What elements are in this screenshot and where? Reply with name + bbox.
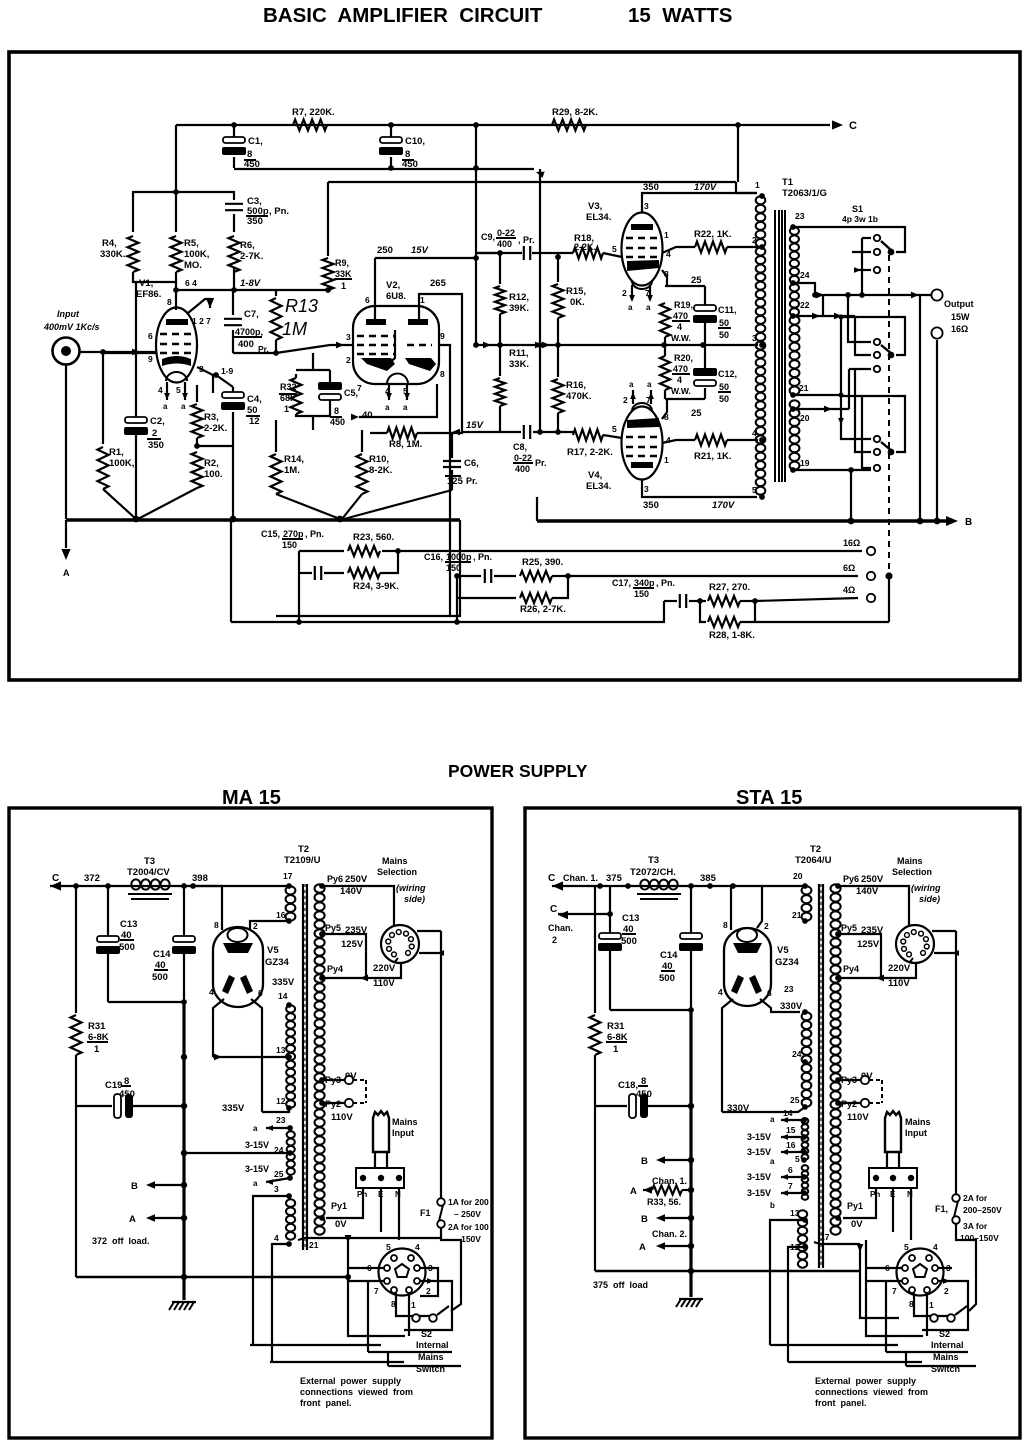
wire 335V pin12 rail bbox=[262, 1108, 289, 1112]
wire 335V rail bbox=[213, 1056, 289, 1058]
svg-text:, Pn.: , Pn. bbox=[473, 552, 492, 562]
svg-text:C11,: C11, bbox=[718, 305, 737, 315]
wire HT rail top bbox=[176, 124, 830, 126]
transformer T2 right coil bbox=[315, 884, 325, 892]
wire tap22 row bbox=[793, 315, 855, 317]
svg-text:front panel.: front panel. bbox=[815, 1398, 867, 1408]
svg-text:25: 25 bbox=[790, 1095, 800, 1105]
STA15 node C chan2 arrow bbox=[558, 911, 568, 919]
svg-text:3-15V: 3-15V bbox=[245, 1164, 269, 1174]
svg-text:7: 7 bbox=[892, 1286, 897, 1296]
svg-text:0V: 0V bbox=[335, 1219, 347, 1230]
T2 21 lead bbox=[298, 1238, 441, 1240]
svg-text:350: 350 bbox=[247, 216, 263, 227]
svg-text:GZ34: GZ34 bbox=[775, 957, 799, 968]
wire tap20 row bbox=[793, 408, 849, 410]
svg-text:EL34.: EL34. bbox=[586, 212, 611, 223]
svg-text:4: 4 bbox=[718, 987, 723, 997]
svg-text:S2: S2 bbox=[421, 1329, 432, 1339]
svg-text:250V: 250V bbox=[345, 874, 368, 885]
wire screen rail bbox=[234, 168, 534, 170]
svg-text:Input: Input bbox=[905, 1128, 927, 1138]
svg-text:8-2K.: 8-2K. bbox=[369, 465, 392, 476]
resistor R6 bbox=[229, 236, 240, 272]
V5 pin6 lead bbox=[251, 999, 262, 1112]
tube V2 anode L bbox=[361, 358, 395, 371]
rotary selector STA bbox=[896, 925, 934, 963]
svg-text:C13: C13 bbox=[120, 919, 137, 930]
svg-text:T1: T1 bbox=[782, 177, 794, 188]
svg-text:C: C bbox=[849, 120, 857, 132]
svg-text:Internal: Internal bbox=[931, 1340, 964, 1350]
svg-text:A: A bbox=[63, 568, 70, 578]
svg-text:500: 500 bbox=[119, 942, 135, 953]
resistor R7 bbox=[293, 120, 327, 131]
STA15 node C chan1 arrow bbox=[552, 881, 563, 890]
wire fb bottom rail bbox=[231, 601, 664, 622]
resistor R26 bbox=[457, 597, 516, 599]
tube V2 anode R bbox=[405, 358, 436, 371]
svg-text:R15,: R15, bbox=[566, 286, 586, 297]
svg-text:23: 23 bbox=[795, 211, 805, 221]
svg-text:3-15V: 3-15V bbox=[747, 1188, 771, 1198]
svg-text:22: 22 bbox=[800, 300, 810, 310]
wire mesh v848 bbox=[848, 295, 871, 342]
svg-text:0-22: 0-22 bbox=[514, 453, 532, 463]
svg-text:Py5: Py5 bbox=[841, 923, 857, 933]
svg-text:A: A bbox=[129, 1214, 136, 1225]
wire R4 branch bbox=[133, 192, 176, 232]
svg-text:2A for 100: 2A for 100 bbox=[448, 1222, 489, 1232]
svg-text:4: 4 bbox=[274, 1233, 279, 1243]
svg-text:19: 19 bbox=[800, 458, 810, 468]
wire V1 plate branch bbox=[175, 125, 177, 232]
transformer T1 core bbox=[774, 210, 776, 482]
STA15 top rail bbox=[552, 885, 805, 887]
svg-text:B: B bbox=[131, 1181, 138, 1192]
resistor R18 bbox=[573, 248, 603, 259]
svg-text:a: a bbox=[253, 1124, 258, 1133]
octal socket pins MA bbox=[391, 1255, 397, 1261]
svg-text:7: 7 bbox=[645, 288, 650, 298]
svg-text:R4,: R4, bbox=[102, 238, 117, 249]
resistor R12 bbox=[499, 253, 501, 284]
svg-text:3-15V: 3-15V bbox=[747, 1172, 771, 1182]
svg-text:5: 5 bbox=[612, 424, 617, 434]
svg-text:7: 7 bbox=[374, 1286, 379, 1296]
capacitor C13 psu bbox=[107, 886, 109, 936]
wire mesh MA 1 bbox=[250, 1344, 381, 1346]
svg-text:33K: 33K bbox=[335, 269, 352, 279]
svg-text:1-9: 1-9 bbox=[221, 366, 234, 376]
transformer T1 secondary winding mid bbox=[790, 316, 800, 324]
svg-text:4p 3w 1b: 4p 3w 1b bbox=[842, 214, 878, 224]
wire right vert from rail bbox=[475, 125, 477, 168]
node B2 arrow STA bbox=[660, 1217, 691, 1219]
svg-text:STA 15: STA 15 bbox=[736, 787, 802, 809]
ground MA bbox=[183, 1277, 185, 1300]
svg-text:3-15V: 3-15V bbox=[747, 1147, 771, 1157]
wire v4 pin8 cell bbox=[662, 399, 667, 419]
svg-text:6: 6 bbox=[258, 988, 263, 998]
svg-text:2A for: 2A for bbox=[963, 1193, 988, 1203]
svg-text:EF86.: EF86. bbox=[136, 289, 161, 300]
node A2 arrow STA bbox=[660, 1245, 691, 1247]
svg-text:2: 2 bbox=[346, 355, 351, 365]
tube V4 top arc bbox=[632, 403, 652, 411]
svg-text:400: 400 bbox=[515, 464, 530, 474]
svg-text:110V: 110V bbox=[331, 1112, 353, 1123]
svg-text:4700p,: 4700p, bbox=[235, 327, 263, 337]
wire v3 pin4 to R22 bbox=[662, 247, 695, 253]
svg-text:2: 2 bbox=[752, 235, 757, 245]
wire fb left vert bbox=[298, 551, 300, 622]
rectifier V5 STA envelope bbox=[724, 928, 771, 1006]
switch S1 group2 contacts bbox=[874, 339, 880, 345]
resistor R27 bbox=[700, 600, 706, 602]
svg-text:385: 385 bbox=[700, 873, 717, 884]
wire mesh STA 3 bbox=[860, 1271, 899, 1318]
svg-text:Py6: Py6 bbox=[843, 874, 859, 884]
wire junction 19 to C4 bbox=[213, 374, 216, 376]
wire mesh MA 2 bbox=[270, 1361, 404, 1363]
output terminal 2 bbox=[931, 327, 942, 338]
svg-text:39K.: 39K. bbox=[509, 303, 529, 314]
tube V2 grid dashes L bbox=[357, 335, 395, 338]
svg-text:1: 1 bbox=[755, 180, 760, 190]
capacitor C15 bbox=[299, 572, 312, 574]
wire R31 down STA bbox=[594, 1055, 596, 1271]
svg-text:20: 20 bbox=[800, 413, 810, 423]
svg-text:4: 4 bbox=[677, 322, 682, 332]
svg-text:250: 250 bbox=[377, 245, 393, 256]
svg-text:250V: 250V bbox=[861, 874, 884, 885]
svg-text:6Ω: 6Ω bbox=[843, 563, 855, 573]
wire mesh v841 bbox=[840, 317, 842, 396]
capacitor C14 STA bbox=[690, 886, 692, 933]
wire Py1 lead bbox=[322, 1217, 326, 1219]
svg-text:a: a bbox=[253, 1179, 258, 1188]
svg-text:50: 50 bbox=[719, 394, 729, 404]
svg-text:2: 2 bbox=[552, 935, 557, 945]
svg-text:17: 17 bbox=[283, 871, 293, 881]
svg-text:3: 3 bbox=[346, 332, 351, 342]
wire output rail bbox=[815, 294, 931, 296]
svg-text:Mains: Mains bbox=[418, 1352, 444, 1362]
transformer T2 left coil a bbox=[286, 886, 296, 894]
wire C13C14 bottom STA bbox=[610, 1009, 691, 1011]
svg-text:6U8.: 6U8. bbox=[386, 291, 406, 302]
socket mesh bottom MA bbox=[368, 1351, 452, 1353]
resistor R29 bbox=[552, 120, 586, 131]
svg-text:100K,: 100K, bbox=[184, 249, 209, 260]
rotary selector MA bbox=[381, 925, 419, 963]
svg-text:R21, 1K.: R21, 1K. bbox=[694, 451, 732, 462]
octal socket STA bbox=[897, 1249, 944, 1296]
v2 grid wire in bbox=[336, 342, 344, 349]
svg-text:3-15V: 3-15V bbox=[245, 1140, 269, 1150]
wire rail to V3 area bbox=[328, 181, 736, 183]
svg-text:R31: R31 bbox=[88, 1021, 106, 1032]
capacitor C1 bbox=[233, 125, 235, 140]
MA15 enclosure frame bbox=[9, 808, 492, 1438]
resistor R13 zigzag bbox=[275, 290, 277, 296]
svg-text:a: a bbox=[163, 402, 168, 411]
node R3-R2 junction bbox=[196, 438, 198, 446]
svg-text:T2: T2 bbox=[810, 844, 821, 855]
wire fb top branch bbox=[299, 550, 344, 552]
svg-text:6: 6 bbox=[365, 295, 370, 305]
tube V1 top grid diag bbox=[188, 299, 212, 313]
bottom bus MA bbox=[76, 1276, 348, 1278]
wire mesh v862b bbox=[862, 396, 871, 468]
svg-text:Py6: Py6 bbox=[327, 874, 343, 884]
svg-text:4: 4 bbox=[158, 385, 163, 395]
choke T3 coil bbox=[131, 879, 140, 889]
svg-text:4: 4 bbox=[209, 987, 214, 997]
svg-text:Internal: Internal bbox=[416, 1340, 449, 1350]
terminal block MA bbox=[356, 1168, 404, 1188]
capacitor C4 bbox=[232, 387, 234, 394]
rectifier V5 anode bars bbox=[222, 975, 235, 994]
svg-text:15: 15 bbox=[786, 1125, 796, 1135]
svg-text:0-22: 0-22 bbox=[497, 228, 515, 238]
svg-text:1: 1 bbox=[94, 1044, 100, 1055]
svg-text:50: 50 bbox=[719, 382, 729, 392]
svg-text:(wiring: (wiring bbox=[396, 883, 426, 893]
socket pin8 drop MA bbox=[396, 1293, 433, 1316]
svg-text:R29, 8-2K.: R29, 8-2K. bbox=[552, 107, 598, 118]
svg-text:4Ω: 4Ω bbox=[843, 585, 855, 595]
svg-text:Output: Output bbox=[944, 299, 974, 309]
svg-text:External power supply: External power supply bbox=[300, 1376, 401, 1386]
svg-text:125: 125 bbox=[447, 476, 464, 487]
svg-text:33K.: 33K. bbox=[509, 359, 529, 370]
capacitor C3 bbox=[225, 203, 243, 205]
wire v4 pin4 to R21 bbox=[662, 440, 695, 443]
svg-text:C6,: C6, bbox=[464, 458, 479, 469]
svg-text:R31: R31 bbox=[607, 1021, 625, 1032]
wire V4 HT drop bbox=[536, 497, 538, 521]
resistor R31 MA bbox=[75, 886, 77, 1013]
wire grid row upper bbox=[476, 252, 500, 254]
svg-text:2: 2 bbox=[253, 921, 258, 931]
svg-text:7: 7 bbox=[788, 1181, 793, 1191]
wire V1 grid top junction bbox=[133, 272, 176, 282]
rectifier V5 top arc bbox=[228, 928, 248, 942]
resistor R22 bbox=[695, 242, 727, 253]
tube V2 heater pins bbox=[388, 384, 390, 400]
svg-text:(wiring: (wiring bbox=[911, 883, 941, 893]
svg-text:R25, 390.: R25, 390. bbox=[522, 557, 563, 568]
svg-text:21: 21 bbox=[792, 910, 802, 920]
svg-text:2: 2 bbox=[764, 921, 769, 931]
wire Py6 to rotary STA bbox=[838, 886, 909, 926]
svg-text:R3,: R3, bbox=[204, 412, 219, 423]
wire Py4 branch bbox=[322, 962, 401, 978]
rectifier V5 plate bbox=[223, 943, 253, 953]
svg-text:a: a bbox=[403, 403, 408, 412]
transformer T2 left coil c bbox=[287, 1131, 295, 1138]
svg-text:S2: S2 bbox=[939, 1329, 950, 1339]
svg-text:200–250V: 200–250V bbox=[963, 1205, 1002, 1215]
svg-text:, Pn.: , Pn. bbox=[656, 578, 675, 588]
svg-text:R11,: R11, bbox=[509, 348, 529, 359]
node A arrow MA bbox=[150, 1217, 184, 1219]
svg-text:220V: 220V bbox=[373, 963, 396, 974]
svg-text:S1: S1 bbox=[852, 204, 863, 214]
svg-text:Mains: Mains bbox=[905, 1117, 931, 1127]
rotary selector contacts MA bbox=[394, 958, 398, 963]
resistor R16 bbox=[557, 318, 559, 345]
svg-text:MO.: MO. bbox=[184, 260, 202, 271]
svg-text:500: 500 bbox=[659, 973, 675, 984]
resistor R23 bbox=[348, 546, 380, 556]
V5 STA pin6 lead bbox=[760, 999, 800, 1012]
svg-text:R26, 2-7K.: R26, 2-7K. bbox=[520, 604, 566, 615]
resistor R8 bbox=[370, 432, 387, 434]
wire 19 tap bbox=[793, 469, 871, 471]
svg-text:R22, 1K.: R22, 1K. bbox=[694, 229, 732, 240]
svg-text:a: a bbox=[181, 402, 186, 411]
svg-text:C16,: C16, bbox=[424, 552, 443, 562]
svg-text:R33, 56.: R33, 56. bbox=[647, 1197, 681, 1207]
svg-text:R6,: R6, bbox=[240, 240, 255, 251]
svg-text:24: 24 bbox=[792, 1049, 802, 1059]
svg-text:8: 8 bbox=[664, 412, 669, 422]
node B arrow MA bbox=[150, 1184, 184, 1186]
svg-text:400mV 1Kc/s: 400mV 1Kc/s bbox=[43, 322, 100, 332]
fan left R1 bbox=[103, 489, 136, 519]
svg-text:4: 4 bbox=[677, 375, 682, 385]
svg-text:20: 20 bbox=[793, 871, 803, 881]
tube V2 plate bars bbox=[366, 319, 386, 325]
mains lead STA bbox=[886, 1152, 888, 1168]
svg-text:110V: 110V bbox=[847, 1112, 869, 1123]
switch S1 group3 contacts bbox=[874, 436, 880, 442]
ground STA bbox=[690, 1271, 692, 1297]
wire 330V pin25 rail bbox=[722, 1107, 805, 1112]
svg-text:23: 23 bbox=[276, 1115, 286, 1125]
svg-text:R7, 220K.: R7, 220K. bbox=[292, 107, 335, 118]
svg-text:R32: R32 bbox=[280, 382, 297, 392]
svg-text:– 250V: – 250V bbox=[454, 1209, 481, 1219]
v2 pin9 wire bbox=[439, 345, 450, 616]
ground bus amplifier bbox=[66, 518, 460, 521]
tube V2 plate lead left bbox=[374, 258, 376, 319]
T2 STA mains taps bbox=[835, 883, 841, 889]
svg-text:a: a bbox=[628, 303, 633, 312]
resistor R32 bbox=[291, 378, 302, 414]
svg-text:1: 1 bbox=[420, 295, 425, 305]
resistor R19 bbox=[660, 303, 670, 337]
svg-text:110V: 110V bbox=[888, 978, 910, 989]
svg-text:T2004/CV: T2004/CV bbox=[127, 867, 170, 878]
svg-text:, Pn.: , Pn. bbox=[269, 206, 289, 217]
wire fb 6 line bbox=[568, 575, 858, 577]
svg-text:3: 3 bbox=[644, 201, 649, 211]
wire mesh v841b bbox=[841, 396, 871, 439]
capacitor C11 bbox=[704, 303, 706, 307]
resistor R5 bbox=[171, 236, 182, 272]
socket mesh right MA bbox=[420, 1268, 438, 1296]
svg-text:150: 150 bbox=[634, 589, 649, 599]
transformer T2 STA core bbox=[818, 884, 820, 1268]
svg-text:Chan. 2.: Chan. 2. bbox=[652, 1229, 687, 1239]
socket mesh left MA bbox=[348, 1238, 405, 1336]
svg-text:, Pr.: , Pr. bbox=[518, 235, 535, 245]
svg-text:Input: Input bbox=[392, 1128, 414, 1138]
svg-text:335V: 335V bbox=[222, 1103, 245, 1114]
svg-text:7: 7 bbox=[646, 395, 651, 405]
svg-text:C4,: C4, bbox=[247, 394, 262, 405]
svg-text:3-15V: 3-15V bbox=[747, 1132, 771, 1142]
svg-text:POWER SUPPLY: POWER SUPPLY bbox=[448, 761, 588, 781]
svg-text:140V: 140V bbox=[856, 886, 879, 897]
resistor R21 bbox=[695, 435, 727, 446]
svg-text:2-2K.: 2-2K. bbox=[574, 242, 596, 252]
wire grid rail y353 bbox=[133, 352, 156, 354]
svg-text:1: 1 bbox=[341, 281, 346, 291]
svg-text:8: 8 bbox=[167, 297, 172, 307]
resistor R9 bbox=[327, 182, 329, 256]
svg-text:C10,: C10, bbox=[405, 136, 425, 147]
svg-text:2-2K.: 2-2K. bbox=[204, 423, 227, 434]
tube V1 grid dashes bbox=[160, 333, 194, 336]
tube V4 anode bbox=[627, 418, 659, 428]
svg-text:GZ34: GZ34 bbox=[265, 957, 289, 968]
fan left R2 bbox=[138, 488, 197, 519]
mains input plug MA bbox=[373, 1111, 389, 1152]
tube V2 envelope bbox=[353, 306, 439, 384]
svg-text:R27, 270.: R27, 270. bbox=[709, 582, 750, 593]
transformer T2 STA left coil e bbox=[798, 1210, 807, 1218]
svg-text:6 4: 6 4 bbox=[185, 278, 197, 288]
switch S2 STA bbox=[930, 1314, 938, 1322]
wire row369 bbox=[849, 368, 871, 370]
svg-text:14: 14 bbox=[278, 991, 288, 1001]
svg-text:Chan.: Chan. bbox=[548, 923, 573, 933]
svg-text:140V: 140V bbox=[340, 886, 363, 897]
svg-text:Py4: Py4 bbox=[327, 964, 343, 974]
rotary selector contacts STA bbox=[909, 958, 913, 963]
B rail bbox=[537, 519, 947, 523]
resistor R31 STA bbox=[594, 886, 596, 1013]
capacitor C5 bbox=[329, 370, 331, 382]
svg-text:Py1: Py1 bbox=[331, 1201, 347, 1211]
svg-text:6: 6 bbox=[767, 988, 772, 998]
svg-text:8: 8 bbox=[723, 920, 728, 930]
svg-text:12: 12 bbox=[276, 1096, 286, 1106]
svg-text:1: 1 bbox=[664, 230, 669, 240]
resistor R3 bbox=[196, 385, 198, 402]
tube V1 envelope bbox=[156, 308, 197, 383]
svg-text:220V: 220V bbox=[888, 963, 911, 974]
svg-text:2: 2 bbox=[944, 1286, 949, 1296]
svg-text:330V: 330V bbox=[780, 1001, 803, 1012]
capacitor C2 bbox=[135, 282, 137, 417]
svg-text:4: 4 bbox=[933, 1242, 938, 1252]
svg-text:0K.: 0K. bbox=[570, 297, 585, 308]
terminal block STA bbox=[869, 1168, 917, 1188]
svg-text:6: 6 bbox=[788, 1165, 793, 1175]
node C arrow bbox=[832, 120, 843, 129]
socket mesh right STA bbox=[938, 1267, 952, 1269]
svg-text:3: 3 bbox=[752, 333, 757, 343]
resistor R4 bbox=[128, 236, 139, 272]
tube V3 heater pins bbox=[631, 285, 633, 300]
svg-text:13: 13 bbox=[790, 1208, 800, 1218]
